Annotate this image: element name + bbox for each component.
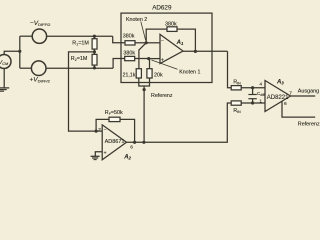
wire Knoten2 to 21.1k diagonal [139, 43, 146, 69]
wire upper input step into box [113, 36, 125, 43]
wire feedback left vertical [146, 29, 167, 43]
svg-text:Knoten 1: Knoten 1 [179, 69, 200, 75]
svg-text:4: 4 [259, 82, 262, 88]
svg-text:20k: 20k [154, 73, 163, 79]
node A2 feedback join [133, 141, 136, 144]
wire VCM top lead [4, 51, 20, 54]
resistor 20k [147, 69, 152, 78]
AD629 box [121, 13, 212, 82]
svg-text:AD8671: AD8671 [105, 139, 125, 145]
node middle divider [93, 50, 96, 53]
node Knoten 2 [145, 41, 148, 44]
svg-text:380k: 380k [123, 34, 135, 40]
node top of R1 [93, 35, 96, 38]
op-amp A3 AD8221 [265, 81, 291, 112]
svg-text:−: − [161, 38, 164, 44]
svg-text:Knoten 2: Knoten 2 [126, 17, 147, 23]
svg-text:2: 2 [98, 127, 101, 133]
op-amp A2 AD8671 [102, 125, 126, 160]
svg-text:Ausgang: Ausgang [298, 89, 319, 95]
wire -VDIFF to 1M rail [47, 35, 113, 37]
ground A2 [91, 156, 100, 159]
resistor 380k lower input [125, 56, 149, 60]
op-amp A1 [160, 34, 183, 63]
svg-text:−VDIFF/2: −VDIFF/2 [30, 20, 51, 27]
svg-text:+: + [104, 150, 107, 156]
svg-text:A1: A1 [176, 40, 184, 46]
svg-text:Cdiff: Cdiff [257, 91, 265, 97]
svg-text:R1=1M: R1=1M [72, 41, 89, 47]
voltage source VCM [0, 55, 11, 69]
wire A2 input from left [96, 130, 102, 132]
resistor RIN upper [231, 86, 265, 90]
wire A3 ref [282, 101, 315, 117]
svg-text:RIN: RIN [233, 79, 241, 85]
wire VCM bottom lead [3, 69, 5, 88]
svg-text:380k: 380k [165, 22, 177, 28]
resistor 380k feedback [167, 27, 195, 52]
svg-text:21,1k: 21,1k [123, 72, 136, 78]
node A2 minus input [95, 130, 98, 133]
voltage source +VDIFF/2 [31, 61, 46, 76]
node bottom of R2 [93, 66, 96, 69]
wire A1 out down to RIN upper [228, 51, 232, 87]
wire +VDIFF to lower rail [46, 67, 113, 69]
node A1 output [194, 50, 197, 53]
svg-text:A2: A2 [123, 154, 131, 160]
svg-text:+: + [161, 58, 164, 64]
svg-text:AD629: AD629 [152, 5, 172, 12]
resistor 21.1k [136, 69, 141, 78]
wire RF left [96, 119, 109, 131]
ground VCM [0, 88, 9, 91]
node A2 ref join [142, 141, 145, 144]
wire A2 output [127, 141, 144, 143]
svg-text:1: 1 [259, 98, 262, 104]
wire Knoten2 to A1 minus input [146, 42, 160, 44]
wire A1 output [183, 50, 228, 52]
wire A3 output [291, 95, 316, 97]
svg-text:RIN: RIN [233, 108, 241, 114]
wire A2 out to RIN lower [144, 103, 231, 142]
svg-text:−: − [104, 127, 107, 133]
resistor 380k upper input [125, 41, 146, 45]
wire to -VDIFF source [20, 35, 32, 37]
svg-text:380k: 380k [123, 50, 135, 56]
resistor RF 50k [109, 117, 135, 142]
node Knoten 1 [147, 57, 150, 60]
wire left vertical rail [19, 36, 21, 68]
resistor R1 1M [92, 36, 97, 49]
node VCM junction [18, 50, 21, 53]
svg-text:6: 6 [130, 145, 133, 151]
voltage source -VDIFF/2 [32, 29, 46, 43]
svg-text:7: 7 [289, 90, 292, 96]
wire Knoten1 to A1 plus input [149, 58, 160, 60]
resistor RIN lower [231, 101, 265, 105]
wire divider midpoint to A2 input [69, 52, 97, 131]
svg-text:AD8221: AD8221 [267, 95, 289, 101]
svg-text:A3: A3 [276, 79, 284, 85]
resistor R2 1M [92, 49, 97, 68]
svg-text:R2=1M: R2=1M [71, 56, 88, 62]
wire to +VDIFF source [20, 67, 32, 69]
wire A2 plus to ground [95, 152, 102, 156]
node cap bottom [251, 101, 254, 104]
svg-text:RF=50k: RF=50k [105, 110, 123, 116]
leader Knoten 2 [141, 22, 146, 41]
svg-text:6: 6 [284, 101, 287, 107]
capacitor Cdiff [248, 88, 256, 103]
wire lower input step into box [113, 59, 125, 69]
svg-text:Referenz: Referenz [298, 121, 320, 127]
wire Knoten1 down to 20k [149, 59, 151, 69]
svg-text:+VDIFF/2: +VDIFF/2 [30, 76, 51, 83]
node cap top [251, 86, 254, 89]
wire resistor bottoms bar [139, 78, 150, 86]
node referenz [143, 88, 146, 91]
wire referenz stem [143, 86, 145, 142]
leader Knoten 1 [152, 60, 178, 69]
svg-text:Referenz: Referenz [151, 93, 173, 99]
